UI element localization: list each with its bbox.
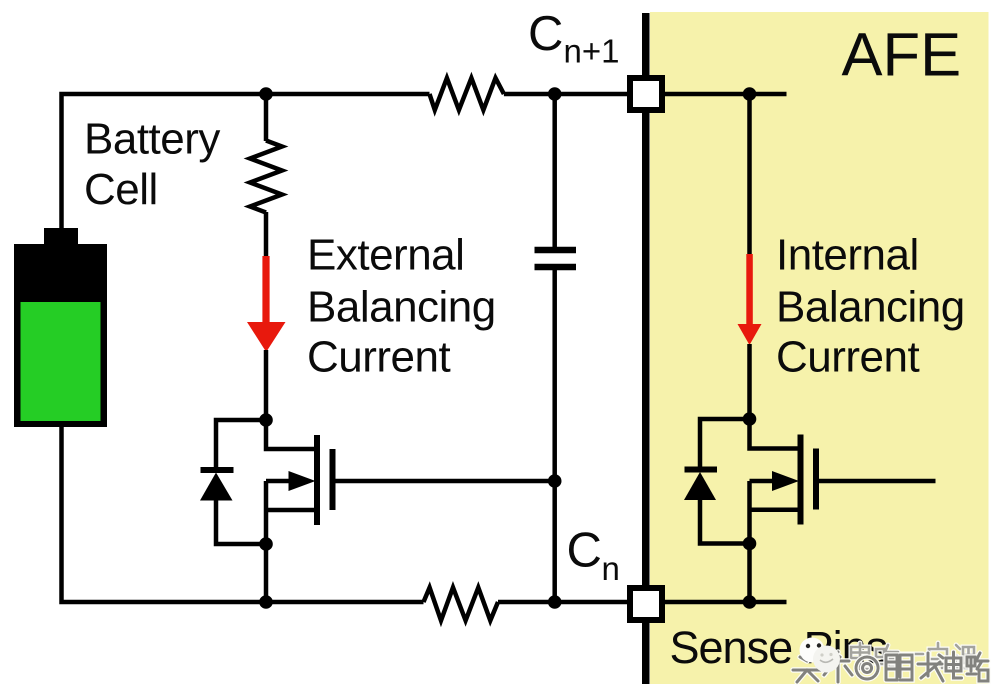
label External Balancing Current: [307, 231, 496, 382]
C1 bottom lead down to bottom rail: [552, 270, 557, 602]
D1 cathode bar: [201, 467, 234, 473]
AFE yellow background region: [650, 12, 989, 684]
svg-text:AFE: AFE: [842, 21, 962, 90]
Q2 drain lead: [750, 419, 799, 449]
node: AFE bottom junction: [743, 595, 757, 609]
Q1 source lead: [266, 508, 317, 513]
Q1 body lead with arrow: [266, 471, 316, 491]
label Sense Pins: [670, 622, 888, 673]
Q2 gate wire stub: [816, 479, 936, 484]
svg-text:n+1: n+1: [564, 33, 620, 70]
D2 anode triangle: [684, 472, 716, 500]
wire: Cn pin into AFE: [661, 600, 787, 605]
Q1 source/body vertical down to bottom rail: [264, 481, 269, 602]
resistor R3 (bottom interconnect): [424, 588, 499, 621]
node: bottom rail / capacitor: [548, 595, 562, 609]
label Cn+1: [528, 7, 619, 70]
Q2 body lead with arrow: [750, 471, 800, 491]
svg-text:External: External: [307, 231, 464, 280]
wire: Cn+1 pin into AFE: [661, 92, 787, 97]
wire: balance resistor branch from top rail: [264, 94, 269, 141]
svg-text:C: C: [528, 7, 563, 61]
battery cell body: [14, 228, 107, 427]
wire: R3 to sense pin Cn: [498, 600, 631, 605]
node: Q1 drain junction: [259, 413, 273, 427]
wire: arrow tip to Q1 drain node: [264, 350, 269, 420]
wire: arrow to Q2 drain node: [747, 344, 752, 419]
label Internal Balancing Current: [776, 231, 965, 382]
D1 anode triangle: [200, 473, 233, 501]
watermark line 1 (grey CJK strokes): [851, 643, 974, 669]
AFE boundary line: [642, 13, 650, 684]
wire: R1 to red arrow: [264, 212, 269, 257]
C1 bottom plate: [535, 264, 577, 271]
watermark line 2 (grey CJK strokes): [793, 652, 988, 682]
D2 cathode bar: [685, 467, 718, 473]
C1 top plate: [535, 247, 577, 254]
Q2 gate bar: [813, 449, 819, 510]
D1 bottom lead: [216, 500, 266, 544]
label AFE: [842, 21, 962, 90]
body diode D2 top lead: [700, 419, 750, 470]
label Cn: [567, 524, 620, 588]
Q1 gate bar: [330, 449, 336, 510]
svg-text:Current: Current: [776, 333, 919, 382]
resistor R1 (external balance): [250, 141, 282, 213]
wire: battery + terminal up and along top rail: [62, 94, 430, 229]
node: top rail / capacitor junction: [548, 87, 562, 101]
label Battery Cell: [84, 115, 220, 215]
svg-text:C: C: [567, 524, 602, 578]
node: bottom rail / Q1 source: [259, 595, 273, 609]
body diode D1 top lead: [216, 420, 266, 470]
Q1 channel bar: [314, 435, 320, 525]
watermark face logo: [800, 638, 841, 673]
svg-text:Internal: Internal: [776, 231, 919, 280]
sense pin square Cn: [630, 588, 662, 620]
node: Q2 source junction: [743, 537, 757, 551]
capacitor C1 top lead: [552, 94, 557, 247]
wire: AFE top node down to internal arrow: [747, 94, 752, 255]
node: AFE top junction: [743, 87, 757, 101]
Q2 source/body vertical down to bottom rail: [747, 481, 752, 602]
node: Q2 drain junction: [743, 412, 757, 426]
Q2 source lead: [750, 507, 801, 512]
svg-text:n: n: [602, 550, 620, 587]
battery cell: negative wire and bottom rail: [62, 425, 424, 602]
Q2 channel bar: [798, 435, 804, 525]
Q1 gate wire to capacitor node: [333, 479, 555, 484]
external balancing current arrow (red): [247, 256, 286, 352]
svg-text:Battery: Battery: [84, 115, 220, 164]
node: gate / capacitor junction: [548, 474, 562, 488]
internal balancing current arrow (red): [738, 254, 762, 345]
sense pin square Cn+1: [630, 78, 662, 110]
node: Q1 source junction: [259, 537, 273, 551]
svg-text:Current: Current: [307, 333, 450, 382]
wire: R2 to sense pin Cn+1: [504, 92, 631, 97]
svg-text:Cell: Cell: [84, 165, 158, 214]
node: top rail / balance resistor junction: [259, 87, 273, 101]
Q1 drain lead: [266, 420, 315, 449]
svg-text:Balancing: Balancing: [307, 283, 496, 332]
resistor R2 (top interconnect): [430, 78, 504, 110]
D2 bottom lead: [700, 500, 750, 544]
svg-text:Balancing: Balancing: [776, 283, 965, 332]
